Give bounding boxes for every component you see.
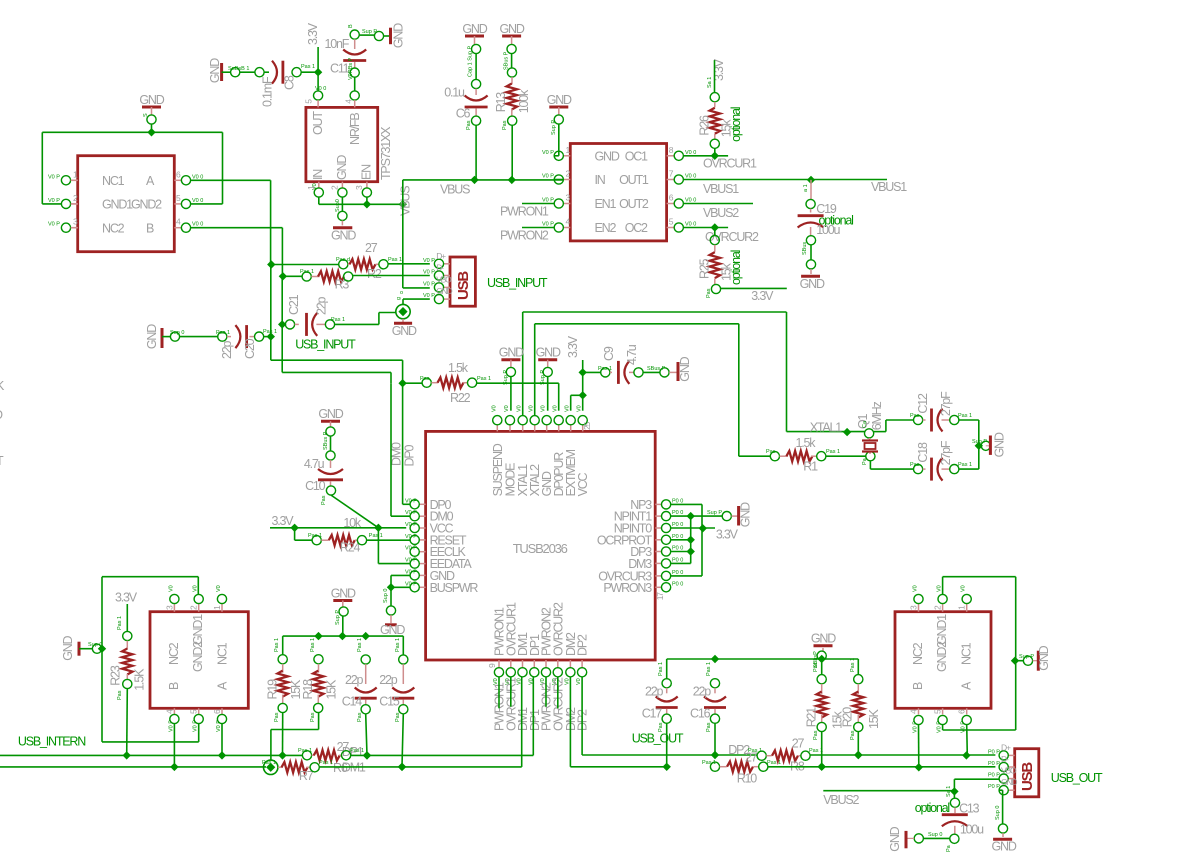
svg-text:Pas 1: Pas 1 [331, 317, 345, 323]
wire PWRON1 to EN1 [500, 204, 554, 219]
wire EEDATA net [378, 528, 410, 564]
svg-text:R22: R22 [450, 391, 471, 405]
svg-text:NC1: NC1 [960, 642, 974, 665]
svg-text:Pas 1: Pas 1 [262, 760, 276, 766]
svg-text:Pas 1: Pas 1 [826, 449, 840, 455]
svg-text:15K: 15K [867, 708, 881, 729]
svg-text:4: 4 [164, 709, 174, 714]
wire C16 to DP2 wire [711, 723, 719, 759]
connector X2 labels [167, 614, 230, 690]
U1 left pins [405, 498, 478, 595]
capacitor C15 22p [379, 638, 414, 722]
wire C11 to NR/FB [348, 57, 359, 91]
svg-text:PWRON3: PWRON3 [603, 581, 652, 595]
supply 3.3V VCC column [566, 335, 587, 410]
U1 top pins [491, 405, 592, 496]
wire U3 IN from VBUS [554, 179, 563, 181]
connector X3 bottom pins 4,5,6 [909, 708, 972, 733]
svg-text:4.7u: 4.7u [304, 457, 325, 471]
svg-text:5: 5 [189, 709, 199, 714]
wire DM1 left [0, 766, 266, 768]
wire X2 pin6 to DP wire [218, 724, 226, 760]
svg-text:GND: GND [739, 502, 753, 527]
wire C18 right [950, 462, 979, 474]
U2 bottom pin 1 IN [306, 169, 325, 197]
ground above C10 [318, 407, 343, 450]
svg-text:Sup P: Sup P [707, 510, 722, 516]
connector J2 pins [988, 742, 1017, 794]
capacitor C18 27pF [910, 440, 953, 480]
svg-text:V0 P: V0 P [542, 198, 554, 204]
wire R25 to 3.3V [706, 284, 787, 303]
U1 right pins [597, 498, 683, 600]
svg-text:R3: R3 [335, 278, 350, 292]
svg-text:R2: R2 [367, 267, 382, 281]
svg-text:V0 P: V0 P [423, 270, 435, 276]
svg-text:Sup P: Sup P [972, 439, 987, 445]
ground right of C9 [678, 356, 692, 381]
wire crystal top to C12 [874, 420, 914, 432]
svg-text:GND: GND [595, 150, 620, 164]
ground above R13 [500, 22, 525, 70]
svg-text:Pas 1: Pas 1 [388, 257, 402, 263]
svg-text:USB_OUT: USB_OUT [632, 731, 684, 745]
svg-text:Pas 1: Pas 1 [301, 64, 315, 70]
svg-text:Pas 1: Pas 1 [598, 366, 612, 372]
svg-text:Pas 1: Pas 1 [850, 658, 856, 672]
svg-text:R10: R10 [737, 771, 758, 785]
svg-text:Pas: Pas [420, 376, 430, 382]
svg-text:NC1: NC1 [102, 174, 125, 188]
svg-text:Pas 1: Pas 1 [477, 376, 491, 382]
svg-text:GND: GND [800, 277, 825, 291]
wire OVRCUR1 [683, 139, 757, 171]
wire USB GND pin [403, 299, 430, 304]
svg-text:V0: V0 [577, 405, 583, 412]
svg-text:V0: V0 [216, 585, 222, 592]
svg-text:6: 6 [176, 169, 181, 179]
net labels DM0 DP0 [390, 442, 417, 467]
svg-text:V0 P: V0 P [405, 534, 417, 540]
IC U1 TUSB2036 body [426, 431, 656, 660]
edge text fragments [0, 379, 5, 468]
svg-text:P0 P: P0 P [988, 749, 1000, 755]
svg-text:2: 2 [189, 605, 199, 610]
svg-text:V0RBs P: V0RBs P [348, 57, 354, 80]
capacitor C20 22p [220, 325, 257, 359]
net USB_INTERN label [18, 734, 86, 748]
svg-text:DP0: DP0 [403, 445, 417, 467]
svg-text:GND: GND [380, 623, 405, 637]
svg-text:Pas 1: Pas 1 [310, 638, 316, 652]
svg-text:Sup 0: Sup 0 [170, 330, 184, 336]
svg-text:VBO: VBO [1001, 766, 1017, 776]
svg-text:V0 P: V0 P [405, 581, 417, 587]
svg-text:Ca: Ca [862, 420, 868, 428]
wire XTAL2 net [535, 324, 739, 456]
resistor R22 1.5k [420, 361, 491, 405]
svg-text:R19: R19 [266, 679, 280, 700]
svg-text:10nF: 10nF [325, 37, 350, 51]
svg-text:22p: 22p [345, 673, 364, 687]
wire VBUS2 net [823, 787, 958, 807]
svg-text:Pas: Pas [466, 120, 472, 130]
svg-text:3: 3 [354, 185, 364, 190]
svg-text:C15: C15 [379, 695, 400, 709]
svg-text:GND: GND [811, 632, 836, 646]
svg-text:C18: C18 [916, 442, 930, 463]
ground right of C11 [391, 23, 406, 48]
svg-text:Sup P: Sup P [551, 120, 557, 135]
svg-text:V0 P: V0 P [937, 721, 943, 733]
wire NPINT0 3.3V [671, 524, 739, 541]
wire X3 pin4 to DM2 [918, 725, 920, 768]
svg-text:GND: GND [61, 635, 75, 660]
svg-text:Sup0: Sup0 [335, 199, 341, 212]
svg-text:Pas d: Pas d [336, 257, 350, 263]
svg-text:XTAL1: XTAL1 [810, 421, 843, 435]
svg-text:B: B [146, 222, 154, 236]
svg-text:P0 0: P0 0 [672, 570, 683, 576]
U2 top pin 4 NR/FB [343, 91, 362, 145]
svg-text:Pas: Pas [706, 288, 712, 298]
svg-text:V0 P: V0 P [405, 498, 417, 504]
svg-text:10k: 10k [343, 516, 362, 530]
svg-text:C16: C16 [690, 706, 711, 720]
svg-text:9: 9 [487, 663, 497, 668]
svg-text:EN2: EN2 [595, 221, 617, 235]
U3 right labels [619, 150, 649, 236]
ground right of X3 [1015, 645, 1051, 670]
regulator U2 TPS731XX body [306, 107, 393, 181]
wire X3 pin2 ring [943, 577, 1020, 730]
svg-text:22p: 22p [315, 296, 329, 315]
svg-text:V0 P: V0 P [542, 174, 554, 180]
svg-text:R21: R21 [805, 707, 819, 728]
wire DM0 down and right [282, 324, 391, 383]
svg-text:Pas 1: Pas 1 [350, 748, 364, 754]
wire VBUS1 [683, 176, 907, 196]
svg-text:Pas 1: Pas 1 [117, 616, 123, 630]
net USB_OUT label left [632, 731, 684, 745]
svg-text:1: 1 [957, 605, 967, 610]
connector X2 top pins 3,2,1 [164, 585, 226, 611]
svg-text:3.3V: 3.3V [306, 22, 320, 45]
svg-text:3.3V: 3.3V [716, 528, 739, 542]
svg-text:GND: GND [392, 324, 417, 338]
wire C21 right to GND pad [325, 313, 395, 330]
wire gnd column NPINT1 OCRPROT DP3 DM3 [671, 516, 695, 563]
svg-text:USB_INTERN: USB_INTERN [18, 734, 86, 748]
wire C11 top to ground [348, 24, 391, 41]
svg-text:EN1: EN1 [595, 197, 617, 211]
svg-text:V0 P: V0 P [961, 721, 967, 733]
resistor R20 15K [841, 658, 882, 740]
svg-text:V0: V0 [564, 678, 570, 685]
connector X1 left pins 1,2,3 [48, 169, 78, 232]
svg-text:GND: GND [331, 228, 356, 242]
svg-text:USB: USB [1019, 762, 1036, 791]
wire DP1 left [0, 754, 303, 756]
svg-text:IN: IN [595, 173, 606, 187]
svg-text:Pas: Pas [706, 722, 712, 732]
svg-text:Pas 1: Pas 1 [706, 662, 712, 676]
svg-text:R20: R20 [841, 707, 855, 728]
svg-text:GND: GND [208, 58, 222, 83]
svg-text:Pas 1: Pas 1 [958, 462, 972, 468]
svg-text:22p: 22p [220, 340, 234, 359]
svg-text:GND: GND [992, 840, 1017, 854]
svg-text:Pas 1: Pas 1 [319, 760, 333, 766]
svg-text:V0 P: V0 P [48, 174, 60, 180]
svg-text:V0: V0 [576, 678, 582, 685]
svg-text:V0 P: V0 P [216, 720, 222, 732]
svg-text:V0 P: V0 P [423, 258, 435, 264]
svg-text:V0 0: V0 0 [192, 222, 203, 228]
wire C6 down to VBUS [466, 116, 481, 180]
svg-text:EN: EN [360, 164, 374, 180]
svg-text:T: T [0, 454, 4, 468]
svg-text:4: 4 [909, 709, 919, 714]
svg-text:Pas 1: Pas 1 [813, 658, 819, 672]
svg-text:Sup 0: Sup 0 [383, 589, 389, 603]
wire R22 to DP0PUR [477, 383, 559, 411]
svg-text:V0: V0 [565, 405, 571, 412]
svg-text:Pas 1: Pas 1 [767, 760, 781, 766]
capacitor C21 22p [278, 276, 329, 336]
svg-text:o: o [400, 290, 403, 296]
svg-text:P0 0: P0 0 [672, 522, 683, 528]
svg-text:3: 3 [164, 605, 174, 610]
svg-text:C6: C6 [456, 107, 471, 121]
resistor R1 1.5k [739, 436, 840, 473]
svg-text:GND: GND [499, 346, 524, 360]
connector X1 right pins 6,5,4 [174, 169, 203, 232]
ground left of C8 [208, 58, 222, 83]
svg-text:OUT2: OUT2 [619, 197, 649, 211]
svg-text:1.5k: 1.5k [796, 436, 817, 450]
svg-text:V0 0: V0 0 [685, 222, 696, 228]
svg-text:GND2: GND2 [131, 198, 162, 212]
wire C17 to DM2 wire [663, 723, 671, 771]
wire DP0 from A [267, 260, 339, 268]
svg-text:5: 5 [933, 709, 943, 714]
svg-text:GND: GND [436, 286, 452, 296]
net USB_OUT text right [1051, 771, 1103, 785]
svg-text:B: B [348, 24, 354, 28]
resistor R13 100k [494, 54, 531, 117]
power switch U3 body [570, 144, 666, 241]
svg-text:C17: C17 [642, 706, 663, 720]
svg-text:Pas: Pas [117, 690, 123, 700]
ground above GND pin [536, 346, 561, 411]
svg-text:V0 P: V0 P [48, 222, 60, 228]
net USB_INPUT text right [487, 276, 548, 290]
svg-text:V0 0: V0 0 [685, 198, 696, 204]
svg-text:22p: 22p [693, 685, 712, 699]
svg-text:V0: V0 [491, 405, 497, 412]
connector X3 top pins 3,2,1 [909, 585, 972, 611]
capacitor C14 22p [342, 638, 377, 722]
wire GND rail above X1 [42, 124, 222, 204]
wire OVRCUR2 [683, 223, 759, 244]
capacitor C6 [444, 54, 487, 121]
svg-text:Pas: Pas [357, 712, 363, 722]
wire NP3 to 3.3V column [671, 504, 702, 576]
svg-text:Pas 1: Pas 1 [958, 413, 972, 419]
ground above U3 pin1 GND [547, 93, 572, 156]
svg-text:Sa 1: Sa 1 [707, 77, 713, 88]
wire R10 right [768, 763, 996, 772]
svg-text:VBUS1: VBUS1 [871, 180, 907, 194]
svg-text:Pa: Pa [862, 457, 868, 465]
svg-text:27pF: 27pF [939, 440, 953, 465]
svg-text:VCC: VCC [576, 472, 590, 496]
svg-text:3: 3 [909, 605, 919, 610]
wire R23 to DP wire [123, 689, 131, 760]
connector X2 body [150, 612, 248, 709]
svg-text:Sa 1: Sa 1 [946, 786, 952, 797]
svg-text:Sup P: Sup P [540, 370, 546, 385]
wire OVRCUR1 stub [510, 677, 512, 707]
ground left of C20 [145, 324, 162, 349]
svg-text:GND: GND [145, 324, 159, 349]
svg-text:Sup 0: Sup 0 [995, 806, 1001, 820]
svg-text:PWRON1: PWRON1 [500, 205, 549, 219]
svg-text:100u: 100u [960, 822, 984, 836]
svg-text:C12: C12 [916, 393, 930, 414]
svg-text:V0 P: V0 P [193, 720, 199, 732]
wire VBUS2 to VBO [954, 779, 999, 791]
svg-text:Pas: Pas [502, 120, 508, 130]
connector X2 bottom pins 4,5,6 [164, 708, 226, 732]
svg-text:4.7u: 4.7u [625, 344, 639, 365]
svg-text:C8: C8 [283, 75, 297, 90]
svg-text:GND: GND [462, 22, 487, 36]
svg-text:OC2: OC2 [625, 221, 648, 235]
wire VBUS rail [403, 176, 564, 197]
svg-text:5: 5 [304, 99, 314, 104]
wire PWRON2 stub [545, 677, 547, 707]
svg-text:BUSPWR: BUSPWR [430, 581, 479, 595]
svg-text:OC1: OC1 [625, 150, 648, 164]
svg-text:2: 2 [330, 185, 340, 190]
svg-text:VBUS1: VBUS1 [703, 182, 739, 196]
ground below U2 [331, 197, 356, 242]
svg-text:27: 27 [745, 750, 758, 764]
supply 3.3V above R26 [707, 58, 726, 102]
svg-text:R18: R18 [301, 679, 315, 700]
wire OVRCUR3 [671, 575, 702, 577]
svg-text:R26: R26 [698, 115, 712, 136]
svg-text:V0 P: V0 P [423, 293, 435, 299]
svg-text:USB_OUT: USB_OUT [1051, 771, 1103, 785]
capacitor C13 100u [915, 786, 984, 837]
svg-text:NC2: NC2 [167, 642, 181, 665]
resistor R23 1.5K [108, 616, 146, 700]
svg-text:3.3V: 3.3V [751, 289, 774, 303]
svg-text:R13: R13 [494, 92, 508, 113]
ground above C6 [462, 22, 487, 77]
ground left of X2 [61, 635, 102, 660]
svg-text:C20: C20 [243, 338, 257, 359]
wire XTAL1 net [523, 312, 865, 436]
svg-text:22p: 22p [379, 673, 398, 687]
svg-text:Pas 1: Pas 1 [357, 638, 363, 652]
resistor R8 27 [728, 736, 823, 773]
svg-text:GND: GND [1001, 777, 1017, 787]
svg-text:optional: optional [729, 250, 743, 285]
svg-text:NC2: NC2 [911, 642, 925, 665]
ground above right bus [811, 632, 836, 668]
svg-text:SBus P: SBus P [504, 51, 510, 70]
svg-text:A: A [960, 681, 974, 690]
resistor R7 27 [262, 760, 333, 783]
svg-text:SBus P: SBus P [647, 366, 666, 372]
capacitor C11 [325, 37, 367, 76]
resistor R26 15k [698, 102, 743, 142]
ground below J2 [992, 839, 1017, 854]
capacitor C17 22p [642, 662, 678, 732]
svg-text:SBus: SBus [802, 242, 808, 255]
svg-text:P0 0: P0 0 [672, 557, 683, 563]
net USB_INPUT label [295, 338, 356, 352]
wire R8 right [810, 751, 995, 760]
svg-text:TPS731XX: TPS731XX [379, 126, 393, 180]
wire C8 right to 3.3V node [292, 64, 322, 77]
svg-text:VBUS2: VBUS2 [823, 793, 859, 807]
wire C20 left [162, 330, 231, 341]
svg-text:P0 0: P0 0 [672, 546, 683, 552]
ground below C19 [800, 276, 825, 291]
svg-text:GND1: GND1 [102, 198, 133, 212]
svg-text:8: 8 [669, 145, 674, 155]
svg-text:C9: C9 [602, 346, 616, 361]
supply 3.3V above R23 [115, 590, 138, 631]
svg-text:4: 4 [176, 217, 181, 227]
wire R24 to RESET [367, 539, 411, 541]
svg-text:Pas: Pas [395, 712, 401, 722]
wire R13 down to VBUS [502, 116, 517, 180]
connector J1 USB_INPUT body [450, 257, 475, 306]
svg-text:OVRCUR2: OVRCUR2 [705, 230, 759, 244]
svg-text:NC1: NC1 [216, 642, 230, 665]
svg-text:GND: GND [139, 93, 164, 107]
svg-text:V0: V0 [504, 405, 510, 412]
resistor R19 15K [266, 638, 303, 722]
svg-text:V0 0: V0 0 [192, 198, 203, 204]
wire C15 to DM wire [398, 714, 406, 771]
svg-text:USB: USB [455, 271, 472, 300]
wire R19 to DP wire [278, 713, 286, 760]
svg-text:V0 P: V0 P [913, 721, 919, 733]
svg-text:7: 7 [669, 169, 674, 179]
resistor R24 10k [295, 516, 383, 555]
svg-text:P0 P: P0 P [988, 773, 1000, 779]
capacitor C9 4.7u [583, 344, 639, 384]
svg-text:Pas: Pas [850, 730, 856, 740]
svg-text:6: 6 [957, 709, 967, 714]
svg-text:Sup 0: Sup 0 [928, 832, 942, 838]
connector X3 labels [911, 614, 974, 690]
svg-text:3.3V: 3.3V [115, 590, 138, 604]
crystal Q1 6MHz [856, 402, 884, 465]
resistor R25 15k [698, 228, 743, 286]
svg-text:V0 P: V0 P [48, 198, 60, 204]
wire R6 to DP1 column [351, 677, 534, 760]
svg-text:Cap 1 Sup P: Cap 1 Sup P [468, 45, 474, 77]
U1 bottom pins [487, 602, 590, 685]
